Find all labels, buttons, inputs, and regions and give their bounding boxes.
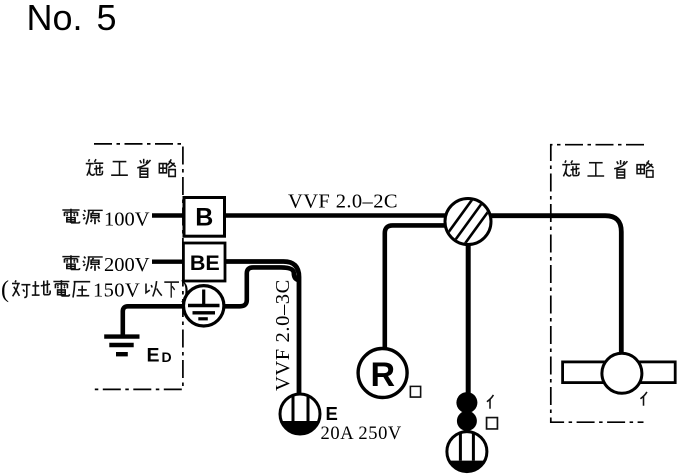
label sekou-shouryaku left	[86, 159, 176, 177]
svg-text:VVF 2.0–3C: VVF 2.0–3C	[272, 279, 294, 391]
svg-text:20A 250V: 20A 250V	[321, 424, 402, 444]
switch i	[456, 392, 477, 413]
svg-text:5: 5	[97, 0, 117, 38]
label E_D	[147, 345, 172, 367]
wire grounding terminal to cable run	[224, 267, 298, 306]
svg-text:No.: No.	[27, 0, 83, 38]
right dashed construction-omitted box	[551, 145, 644, 423]
svg-text:BE: BE	[190, 251, 220, 275]
svg-text:E: E	[147, 345, 160, 367]
wire junction box to lamp receptacle R	[385, 225, 447, 349]
20A 250V outlet with earth	[280, 394, 320, 434]
label dengen 200V	[62, 254, 149, 276]
svg-text:D: D	[162, 349, 172, 365]
svg-text:150V: 150V	[93, 280, 140, 302]
svg-text:B: B	[195, 204, 213, 232]
label sekou-shouryaku right	[562, 160, 653, 178]
svg-text:R: R	[371, 356, 396, 394]
fluorescent luminaire (i)	[563, 353, 676, 393]
breaker BE	[183, 243, 225, 281]
svg-text:200V: 200V	[104, 254, 150, 276]
wall outlet below switches	[447, 432, 487, 472]
label 20A 250V	[321, 424, 402, 444]
wire grounding terminal to ground rod	[123, 306, 184, 335]
breaker B	[184, 198, 225, 237]
lamp receptacle R (ro)	[358, 349, 407, 398]
svg-text:E: E	[326, 403, 338, 424]
label VVF 2.0-3C (vertical)	[272, 279, 294, 391]
ground E_D	[104, 337, 139, 355]
wire junction box to right lamp	[489, 216, 621, 354]
svg-text:(: (	[1, 277, 9, 303]
label ro (switch)	[487, 418, 498, 429]
grounding terminal (circle with earth mark)	[184, 286, 224, 326]
switch ro	[457, 411, 477, 431]
wire breaker B to junction box	[225, 213, 447, 218]
left dashed construction-omitted box	[93, 144, 183, 390]
wire junction box down to switches	[466, 243, 471, 393]
wire 100V source to breaker B	[152, 213, 184, 218]
label E (outlet)	[326, 403, 338, 424]
label VVF 2.0-2C	[288, 191, 398, 213]
wire breaker BE to 20A outlet (VVF 2.0-3C)	[225, 262, 299, 395]
label i (luminaire)	[640, 392, 647, 406]
label (taichi-denatsu 150V ika)	[1, 277, 189, 303]
svg-text:VVF 2.0–2C: VVF 2.0–2C	[288, 191, 398, 213]
svg-text:100V: 100V	[104, 209, 150, 231]
label ro (receptacle)	[410, 386, 420, 397]
wire 200V source to breaker BE	[152, 260, 184, 264]
title No.5	[27, 0, 117, 38]
label dengen 100V	[62, 209, 149, 231]
junction box (hatched circle)	[445, 196, 491, 247]
label i (switch)	[487, 395, 494, 409]
